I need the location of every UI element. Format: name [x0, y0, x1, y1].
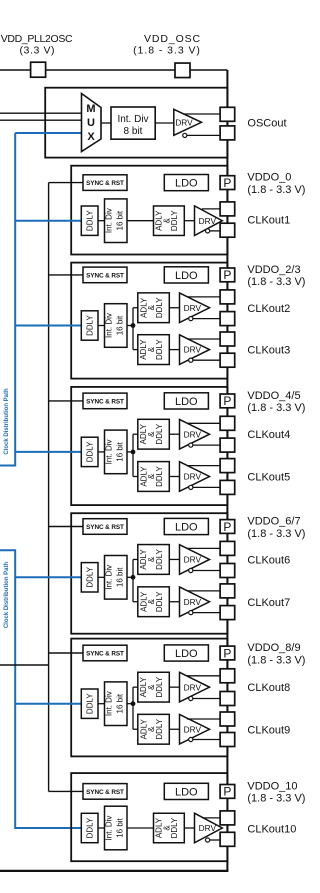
wire IntDiv to ADLY 10	[127, 827, 154, 829]
svg-text:VDDO_10: VDDO_10	[247, 780, 297, 792]
wire ADLY to DRV lower 6/7	[169, 601, 179, 603]
driver DRV 4/5 lower	[180, 462, 210, 492]
sync block SYNC & RST 10	[83, 784, 127, 800]
wire DRV 6/7 upper output N	[193, 570, 220, 572]
svg-text:VDDO_6/7: VDDO_6/7	[247, 516, 300, 528]
svg-text:CLKout10: CLKout10	[247, 824, 296, 836]
delay ADLY&DDLY 8/9 upper	[138, 672, 170, 702]
wire ADLY to DRV upper 6/7	[169, 558, 179, 560]
svg-text:P: P	[223, 520, 231, 534]
pin CLKout square 10-0	[220, 811, 235, 825]
pin VDD_OSC	[175, 63, 190, 78]
channel block VDDO_8/9 outline	[71, 639, 227, 757]
svg-text:VDDO_8/9: VDDO_8/9	[247, 642, 300, 654]
delay DDLY 6/7	[81, 563, 98, 592]
wire ADLY to DRV lower 8/9	[169, 728, 179, 730]
pin CLKout square 8/9-0	[220, 669, 235, 683]
svg-text:16 bit: 16 bit	[115, 567, 124, 587]
inversion bubble DRV 8/9 lower	[189, 737, 193, 741]
svg-text:DDLY: DDLY	[155, 297, 164, 318]
inversion bubble DRV 2/3 lower	[189, 358, 193, 362]
wire DRV 6/7 upper output P	[187, 547, 220, 549]
wire DRV 8/9 upper output N	[193, 698, 220, 700]
wire junction branch vertical 8/9	[132, 687, 134, 729]
wire SYNC branch to block 2/3	[49, 274, 83, 276]
regulator LDO 4/5	[164, 393, 208, 409]
svg-text:CLKout2: CLKout2	[247, 303, 290, 315]
wire clock distribution trunk (blue) lower	[0, 550, 81, 828]
pin CLKout square 2/3-1	[220, 312, 235, 326]
svg-text:DRV: DRV	[199, 216, 217, 226]
pin VDD_PLL2OSC	[31, 62, 46, 77]
svg-text:Clock Distribution Path: Clock Distribution Path	[4, 388, 10, 455]
delay ADLY&DDLY 2/3 lower	[138, 335, 170, 365]
pin P (VDDO_8/9)	[220, 646, 235, 660]
divider Int. Div 16 bit 6/7	[105, 556, 128, 600]
svg-text:DDLY: DDLY	[86, 314, 95, 335]
wire MUX input 1	[0, 119, 82, 121]
svg-text:CLKout8: CLKout8	[247, 682, 290, 694]
pin CLKout square 6/7-1	[220, 564, 235, 578]
svg-text:P: P	[223, 785, 231, 799]
svg-text:CLKout9: CLKout9	[247, 724, 290, 736]
svg-text:SYNC & RST: SYNC & RST	[86, 272, 124, 279]
sync block SYNC & RST 2/3	[83, 267, 127, 283]
wire blue branch into block 8/9	[15, 703, 81, 705]
svg-text:CLKout1: CLKout1	[247, 215, 290, 227]
svg-text:(3.3 V): (3.3 V)	[19, 45, 55, 57]
wire junction to ADLY lower 8/9	[133, 728, 138, 730]
driver DRV 2/3 lower	[180, 335, 210, 365]
delay ADLY&DDLY 6/7 upper	[138, 545, 170, 575]
svg-text:16 bit: 16 bit	[115, 210, 124, 230]
svg-text:SYNC & RST: SYNC & RST	[86, 789, 124, 796]
svg-text:LDO: LDO	[175, 648, 198, 660]
divider Int. Div 16 bit 4/5	[105, 430, 128, 474]
wire MUX to Int Div	[101, 122, 111, 124]
wire junction to ADLY lower 6/7	[133, 601, 138, 603]
wire ADLY to DRV 0	[184, 220, 194, 222]
wire OSC DRV output P	[183, 113, 220, 115]
pin CLKout square 4/5-3	[220, 480, 235, 494]
driver DRV 10	[195, 813, 223, 843]
wire IntDiv to junction 4/5	[127, 451, 133, 453]
wire DRV 4/5 lower output N	[193, 486, 220, 488]
svg-text:DDLY: DDLY	[155, 423, 164, 444]
wire junction branch vertical 6/7	[132, 559, 134, 601]
regulator LDO 8/9	[164, 645, 208, 661]
junction node 8/9	[131, 701, 136, 706]
wire junction to ADLY upper 8/9	[133, 686, 138, 688]
channel block VDDO_2/3 outline	[71, 263, 227, 379]
svg-text:DRV: DRV	[184, 682, 202, 692]
wire DRV 2/3 upper output N	[193, 318, 220, 320]
wire IntDiv to junction 2/3	[127, 325, 133, 327]
pin CLKout square 6/7-2	[220, 584, 235, 598]
inversion bubble DRV 8/9 upper	[189, 696, 193, 700]
wire junction branch vertical 4/5	[132, 434, 134, 476]
svg-text:DRV: DRV	[184, 472, 202, 482]
pin CLKout square 0-1	[220, 223, 235, 237]
inversion bubble DRV 4/5 upper	[189, 443, 193, 447]
svg-text:Int. Div: Int. Div	[105, 691, 114, 716]
regulator LDO 10	[164, 783, 208, 799]
pin CLKout square 2/3-3	[220, 353, 235, 367]
wire DRV 2/3 lower output N	[193, 359, 220, 361]
inversion bubble DRV 6/7 lower	[189, 611, 193, 615]
wire DRV 6/7 lower output P	[187, 590, 220, 592]
wire DRV 2/3 lower output P	[187, 338, 220, 340]
wire ADLY to DRV upper 4/5	[169, 433, 179, 435]
sync block SYNC & RST 8/9	[83, 645, 127, 661]
svg-text:Int. Div: Int. Div	[105, 208, 114, 233]
wire Int Div to DRV	[155, 122, 174, 124]
wire junction to ADLY lower 4/5	[133, 476, 138, 478]
svg-text:DDLY: DDLY	[155, 465, 164, 486]
wire DRV 8/9 lower output N	[193, 739, 220, 741]
svg-text:DDLY: DDLY	[86, 817, 95, 838]
driver DRV 2/3 upper	[180, 293, 210, 323]
pin P (VDDO_0)	[220, 176, 235, 190]
svg-text:(1.8 - 3.3 V): (1.8 - 3.3 V)	[133, 45, 201, 57]
inversion bubble DRV 6/7 upper	[189, 568, 193, 572]
pin P (VDDO_6/7)	[220, 520, 235, 534]
svg-text:(1.8 - 3.3 V): (1.8 - 3.3 V)	[247, 402, 305, 414]
svg-text:DRV: DRV	[184, 345, 202, 355]
inversion bubble OSC DRV	[183, 133, 187, 137]
pin CLKout square 8/9-1	[220, 692, 235, 706]
wire MUX input feedback (blue)	[15, 132, 81, 134]
wire DRV 6/7 lower output N	[193, 612, 220, 614]
OSC block outline	[45, 88, 227, 158]
svg-text:(1.8 - 3.3 V): (1.8 - 3.3 V)	[247, 528, 305, 540]
svg-text:DDLY: DDLY	[155, 339, 164, 360]
svg-text:(1.8 - 3.3 V): (1.8 - 3.3 V)	[247, 654, 305, 666]
delay ADLY&DDLY 8/9 lower	[138, 714, 170, 744]
driver DRV 4/5 upper	[180, 419, 210, 449]
pin CLKout square 4/5-0	[220, 416, 235, 430]
pin CLKout square 8/9-2	[220, 712, 235, 726]
svg-text:SYNC & RST: SYNC & RST	[86, 180, 124, 187]
wire junction branch vertical 2/3	[132, 308, 134, 350]
wire ADLY to DRV 10	[184, 827, 194, 829]
wire SYNC branch to block 0	[49, 182, 83, 184]
svg-text:DRV: DRV	[184, 724, 202, 734]
wire junction to ADLY upper 2/3	[133, 307, 138, 309]
svg-text:LDO: LDO	[175, 786, 198, 798]
wire DRV 10 output N	[210, 839, 221, 841]
wire junction to ADLY upper 4/5	[133, 433, 138, 435]
svg-text:(1.8 - 3.3 V): (1.8 - 3.3 V)	[247, 793, 305, 805]
wire ADLY to DRV lower 4/5	[169, 476, 179, 478]
wire DDLY to IntDiv 8/9	[98, 703, 105, 705]
wire DRV 8/9 upper output P	[187, 675, 220, 677]
wire SYNC branch to block 10	[49, 790, 83, 792]
wire blue branch into block 4/5	[15, 451, 81, 453]
wire VDD power rail	[0, 69, 227, 71]
svg-text:CLKout7: CLKout7	[247, 597, 290, 609]
svg-text:DRV: DRV	[184, 303, 202, 313]
wire SYNC branch to block 8/9	[49, 652, 83, 654]
wire junction to ADLY lower 2/3	[133, 349, 138, 351]
wire DRV 0 output P	[202, 208, 220, 210]
wire blue branch into block 0	[15, 220, 81, 222]
svg-text:VDD_OSC: VDD_OSC	[144, 33, 201, 45]
driver DRV 0	[195, 206, 223, 236]
channel block VDDO_6/7 outline	[71, 513, 227, 634]
wire DDLY to IntDiv 4/5	[98, 451, 105, 453]
pin OSCout N	[220, 126, 235, 140]
wire DRV 0 output N	[210, 230, 221, 232]
svg-text:DDLY: DDLY	[86, 566, 95, 587]
pin P (VDDO_2/3)	[220, 268, 235, 282]
pin CLKout square 2/3-0	[220, 290, 235, 304]
wire IntDiv to ADLY 0	[127, 220, 154, 222]
pin CLKout square 4/5-2	[220, 459, 235, 473]
driver DRV 8/9 lower	[180, 714, 210, 744]
svg-text:DDLY: DDLY	[86, 693, 95, 714]
svg-text:DDLY: DDLY	[155, 676, 164, 697]
delay ADLY&DDLY 6/7 lower	[138, 587, 170, 617]
svg-text:DRV: DRV	[184, 597, 202, 607]
delay ADLY&DDLY 2/3 upper	[138, 293, 170, 323]
delay DDLY 0	[81, 206, 98, 235]
inversion bubble DRV 0	[206, 229, 210, 233]
svg-text:LDO: LDO	[175, 396, 198, 408]
svg-text:Int. Div: Int. Div	[105, 816, 114, 841]
inversion bubble DRV 4/5 lower	[189, 485, 193, 489]
mux U_MUX	[82, 94, 102, 152]
svg-text:Int. Div: Int. Div	[105, 313, 114, 338]
svg-text:DDLY: DDLY	[155, 548, 164, 569]
sync block SYNC & RST 6/7	[83, 519, 127, 535]
pin CLKout square 6/7-0	[220, 541, 235, 555]
svg-text:M: M	[86, 103, 95, 115]
divider Int. Div 16 bit 10	[105, 806, 128, 850]
wire clock distribution trunk (blue) upper	[0, 133, 15, 466]
svg-text:Int. Div: Int. Div	[105, 565, 114, 590]
svg-text:Int. Div: Int. Div	[105, 439, 114, 464]
driver DRV 6/7 upper	[180, 545, 210, 575]
delay DDLY 10	[81, 813, 98, 842]
inversion bubble DRV 2/3 upper	[189, 317, 193, 321]
wire SYNC branch to block 6/7	[49, 526, 83, 528]
wire IntDiv to junction 8/9	[127, 703, 133, 705]
wire SYNC trunk vertical	[48, 183, 50, 792]
divider Int. Div 8 bit	[111, 107, 155, 139]
svg-text:VDD_PLL2OSC: VDD_PLL2OSC	[1, 33, 73, 45]
wire ADLY to DRV lower 2/3	[169, 349, 179, 351]
regulator LDO 0	[164, 175, 208, 191]
svg-text:DDLY: DDLY	[86, 441, 95, 462]
channel block VDDO_4/5 outline	[71, 387, 227, 505]
svg-text:P: P	[223, 268, 231, 282]
svg-text:16 bit: 16 bit	[115, 441, 124, 461]
driver DRV 8/9 upper	[180, 672, 210, 702]
chip outline right edge	[226, 70, 228, 871]
svg-text:P: P	[223, 176, 231, 190]
svg-text:CLKout3: CLKout3	[247, 345, 290, 357]
wire SYNC branch to block 4/5	[49, 400, 83, 402]
wire ADLY to DRV upper 8/9	[169, 686, 179, 688]
wire DDLY to IntDiv 0	[98, 220, 105, 222]
wire MUX input 0	[0, 112, 82, 114]
wire DDLY to IntDiv 10	[98, 827, 105, 829]
svg-text:P: P	[223, 646, 231, 660]
wire DDLY to IntDiv 6/7	[98, 576, 105, 578]
wire DDLY to IntDiv 2/3	[98, 325, 105, 327]
svg-text:DRV: DRV	[175, 117, 193, 127]
wire blue branch into block 6/7	[15, 576, 81, 578]
svg-text:LDO: LDO	[175, 178, 198, 190]
driver DRV 6/7 lower	[180, 587, 210, 617]
svg-text:DDLY: DDLY	[155, 718, 164, 739]
svg-text:(1.8 - 3.3 V): (1.8 - 3.3 V)	[247, 276, 305, 288]
delay DDLY 4/5	[81, 437, 98, 466]
wire DRV 4/5 lower output P	[187, 465, 220, 467]
pin CLKout square 6/7-3	[220, 606, 235, 620]
pin CLKout square 4/5-1	[220, 438, 235, 452]
pin P (VDDO_10)	[220, 785, 235, 799]
svg-text:DDLY: DDLY	[170, 210, 179, 231]
svg-text:16 bit: 16 bit	[115, 817, 124, 837]
svg-text:16 bit: 16 bit	[115, 315, 124, 335]
chip outline bottom edge	[0, 870, 228, 872]
svg-text:DDLY: DDLY	[155, 591, 164, 612]
svg-text:8 bit: 8 bit	[124, 126, 143, 137]
svg-text:VDDO_4/5: VDDO_4/5	[247, 390, 300, 402]
wire blue branch into block 2/3	[15, 325, 81, 327]
svg-text:DRV: DRV	[184, 429, 202, 439]
wire SYNC input	[0, 664, 49, 666]
pin P (VDDO_4/5)	[220, 394, 235, 408]
pin OSCout P	[220, 107, 235, 121]
wire DRV 8/9 lower output P	[187, 718, 220, 720]
svg-text:X: X	[87, 131, 95, 143]
svg-text:CLKout5: CLKout5	[247, 472, 290, 484]
wire DRV 10 output P	[202, 817, 220, 819]
svg-text:DDLY: DDLY	[86, 210, 95, 231]
svg-text:VDDO_0: VDDO_0	[247, 172, 291, 184]
junction node 2/3	[131, 323, 136, 328]
channel block VDDO_0 outline	[71, 166, 227, 255]
delay ADLY&DDLY 10	[154, 813, 185, 843]
svg-text:U: U	[87, 117, 95, 129]
svg-text:CLKout6: CLKout6	[247, 554, 290, 566]
divider Int. Div 16 bit 8/9	[105, 682, 128, 726]
pin CLKout square 8/9-3	[220, 733, 235, 747]
inversion bubble DRV 10	[206, 838, 210, 842]
delay DDLY 8/9	[81, 689, 98, 718]
svg-text:P: P	[223, 394, 231, 408]
delay DDLY 2/3	[81, 311, 98, 340]
svg-text:16 bit: 16 bit	[115, 693, 124, 713]
wire DRV 4/5 upper output P	[187, 422, 220, 424]
delay ADLY&DDLY 4/5 lower	[138, 462, 170, 492]
wire IntDiv to junction 6/7	[127, 576, 133, 578]
wire DRV 2/3 upper output P	[187, 296, 220, 298]
svg-text:VDDO_2/3: VDDO_2/3	[247, 264, 300, 276]
svg-text:(1.8 - 3.3 V): (1.8 - 3.3 V)	[247, 184, 305, 196]
svg-text:SYNC & RST: SYNC & RST	[86, 398, 124, 405]
svg-text:OSCout: OSCout	[247, 117, 286, 129]
pin CLKout square 0-0	[220, 202, 235, 216]
wire DRV 4/5 upper output N	[193, 444, 220, 446]
wire ADLY to DRV upper 2/3	[169, 307, 179, 309]
delay ADLY&DDLY 0	[154, 206, 185, 236]
regulator LDO 2/3	[164, 267, 208, 283]
delay ADLY&DDLY 4/5 upper	[138, 419, 170, 449]
channel block VDDO_10 outline	[71, 773, 227, 861]
pin CLKout square 10-1	[220, 832, 235, 846]
svg-text:Clock Distribution Path: Clock Distribution Path	[4, 562, 10, 629]
wire junction to ADLY upper 6/7	[133, 558, 138, 560]
svg-text:LDO: LDO	[175, 270, 198, 282]
sync block SYNC & RST 0	[83, 175, 127, 191]
svg-text:DRV: DRV	[184, 555, 202, 565]
svg-text:LDO: LDO	[175, 521, 198, 533]
junction node 6/7	[131, 575, 136, 580]
svg-text:CLKout4: CLKout4	[247, 429, 290, 441]
junction node 4/5	[131, 450, 136, 455]
svg-text:SYNC & RST: SYNC & RST	[86, 524, 124, 531]
driver DRV (OSC)	[174, 109, 202, 135]
divider Int. Div 16 bit 2/3	[105, 304, 128, 348]
svg-text:SYNC & RST: SYNC & RST	[86, 650, 124, 657]
svg-text:Int. Div: Int. Div	[117, 114, 148, 125]
wire OSC DRV output N	[187, 134, 220, 136]
pin CLKout square 2/3-2	[220, 332, 235, 346]
svg-text:DDLY: DDLY	[170, 817, 179, 838]
sync block SYNC & RST 4/5	[83, 393, 127, 409]
svg-text:DRV: DRV	[199, 823, 217, 833]
divider Int. Div 16 bit 0	[105, 199, 128, 243]
regulator LDO 6/7	[164, 518, 208, 534]
